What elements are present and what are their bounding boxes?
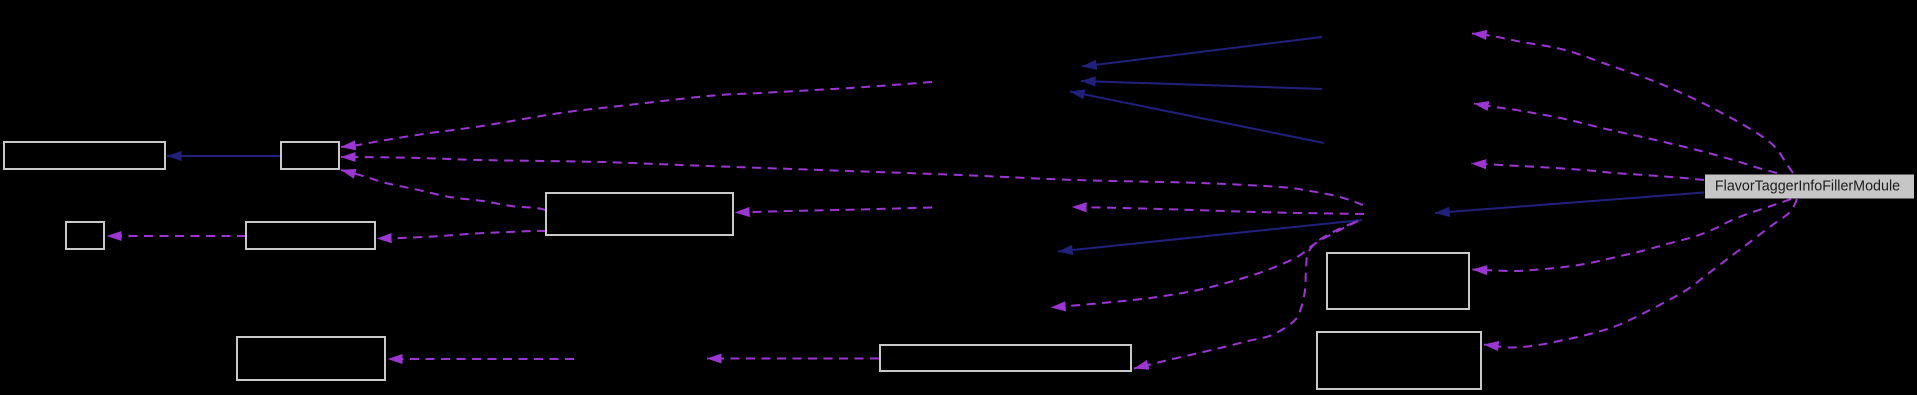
inheritance edge node N4 to node N1 (b4)	[1070, 92, 1324, 144]
node box D (label invisible on black)	[246, 222, 375, 249]
usage edge std::string to FlavorTaggerInfo (e1)	[341, 82, 932, 147]
node box I (label invisible on black)	[1317, 332, 1481, 389]
usage edge FlavorTaggerInfoFillerModule to node N4 (e14)	[1472, 164, 1705, 181]
node box E (label invisible on black)	[546, 193, 733, 235]
node box F (label invisible on black)	[237, 337, 385, 380]
node box A (label invisible on black)	[4, 142, 165, 169]
usage edge FlavorTaggerInfoFillerModule to node N3 (e15)	[1474, 104, 1777, 174]
usage edge box E to box D (e5)	[377, 231, 546, 239]
usage edge node N6 to box E (e6)	[735, 208, 932, 213]
node box H (label invisible on black)	[1327, 253, 1469, 309]
inheritance edge box B to box A (b1)	[167, 155, 281, 157]
usage edge hub to node N8 (e9)	[1051, 221, 1358, 308]
usage edge Module-hub to small box B (e2)	[341, 157, 1363, 205]
usage edge box G to node N9 (e11)	[707, 358, 879, 360]
usage edge FlavorTaggerInfoFillerModule to box I (e18)	[1484, 199, 1797, 348]
inheritance edge FlavorTaggerInfoFillerModule to hub (b5)	[1435, 193, 1704, 214]
usage edge hub to box G (e10)	[1134, 222, 1355, 369]
inheritance edge node N2 to node N1 (b2)	[1082, 37, 1322, 67]
inheritance edge hub to node N7 (b6)	[1058, 220, 1362, 252]
node box C (label invisible on black)	[66, 222, 104, 249]
usage edge box D to box C (e4)	[107, 235, 246, 237]
usage edge FlavorTaggerInfoFillerModule to box H (e17)	[1473, 199, 1792, 271]
inheritance edge node N3 to node N1 (b3)	[1081, 81, 1322, 89]
node FlavorTaggerInfoFillerModule (main node, gray)	[1705, 175, 1914, 199]
svg-text:FlavorTaggerInfoFillerModule: FlavorTaggerInfoFillerModule	[1715, 179, 1900, 195]
usage edge hub to node N6 (e7)	[1072, 207, 1364, 214]
usage edge node N9 to box F (e12)	[388, 358, 574, 360]
node box G (label invisible on black)	[880, 345, 1131, 371]
usage edge FlavorTaggerInfoFillerModule to node N2 (e16)	[1472, 34, 1793, 174]
usage edge box E to box B (e3)	[341, 170, 546, 210]
node box B (label invisible on black)	[281, 142, 339, 169]
